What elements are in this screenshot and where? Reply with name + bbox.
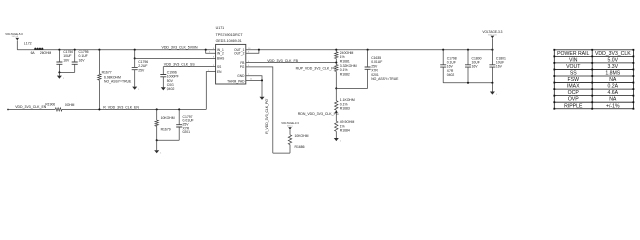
capacitor C1796 2.2UF 25V	[132, 58, 149, 86]
junction: rail / R1681	[335, 49, 337, 51]
svg-text:R1679: R1679	[161, 128, 171, 132]
svg-text:OVP: OVP	[568, 97, 579, 103]
power flag +VOLTAGE-5.0 (input net)	[5, 32, 23, 41]
junction: OUT_1/OUT_2 tie	[258, 49, 260, 51]
wire: node to C1635	[336, 87, 367, 89]
svg-text:SS: SS	[217, 65, 221, 69]
svg-text:RUP_VDD_3V3_CLK_PG: RUP_VDD_3V3_CLK_PG	[296, 66, 337, 70]
svg-text:PG: PG	[240, 65, 245, 69]
junction: EN / R1677 branch	[98, 108, 100, 110]
svg-text:1: 1	[340, 140, 342, 142]
svg-text:16V: 16V	[63, 58, 70, 62]
wire: SS net to U171	[163, 66, 215, 68]
wire: stem to ground	[491, 83, 493, 92]
capacitor C1750 10UF 16V	[56, 50, 73, 73]
svg-text:OCP: OCP	[568, 90, 580, 96]
capacitor C1795 0.1UF 16V	[72, 50, 89, 73]
junction: ground bus	[156, 139, 158, 141]
ground (U171)	[260, 97, 268, 101]
junction: rail / R1677	[98, 49, 100, 51]
capacitor C1801 10UF 16V	[489, 50, 506, 83]
capacitor C1797 0.01UF 25V X7R 0201	[176, 109, 193, 140]
wire: output rail VDD_3V3_CLK	[246, 49, 494, 51]
wire: EN rail up to EN pin	[206, 72, 215, 110]
svg-text:4.6A: 4.6A	[608, 90, 619, 96]
svg-text:R1682: R1682	[340, 72, 350, 76]
junction: GND/THRM_PAD	[261, 79, 263, 81]
svg-text:BIAS: BIAS	[217, 57, 224, 61]
junction: R1682/R1683/C1635 node	[335, 87, 337, 89]
wire: input rail VDD_3V3_CLK_5V0IN	[17, 49, 215, 51]
table row RIPPLE	[564, 103, 620, 109]
ground (C1996)	[161, 87, 169, 91]
wire: FB net	[246, 62, 336, 64]
wire: stem to ground	[156, 140, 158, 150]
junction: EN / R1679	[156, 108, 158, 110]
svg-text:R1906: R1906	[45, 103, 55, 107]
junction: rail / C1801 / output flag	[491, 49, 493, 51]
svg-text:VIN: VIN	[569, 57, 578, 63]
resistor R1906 0OHM	[45, 103, 74, 111]
junction: rail / C1635	[367, 49, 369, 51]
svg-text:1: 1	[496, 94, 498, 96]
resistor R1677 6.98KOHM NO_ASSY=TRUE	[98, 50, 132, 110]
svg-text:POWER RAIL: POWER RAIL	[557, 51, 589, 57]
table row OCP	[568, 90, 619, 96]
ground (input caps)	[57, 76, 65, 80]
wire: output caps ground bus	[443, 82, 492, 84]
wire: EN rail after R1906	[62, 108, 206, 110]
junction: ground bus / C1800	[467, 82, 469, 84]
svg-text:R_VDD_3V3_CLK_EN: R_VDD_3V3_CLK_EN	[103, 105, 139, 109]
svg-text:EN: EN	[217, 70, 222, 74]
wire: stem to ground	[58, 72, 60, 75]
wire: PG bottom jog to R1686	[273, 152, 290, 154]
svg-text:0OHM: 0OHM	[65, 103, 75, 107]
wire: flag to input rail	[16, 40, 18, 49]
svg-text:16V: 16V	[79, 58, 86, 62]
resistor R1679 10KOHM	[155, 109, 175, 140]
power flag +VOLTAGE-3.3 (output net)	[482, 30, 502, 38]
svg-text:1: 1	[160, 153, 162, 155]
svg-text:RDN_VDD_3V3_CLK_PG: RDN_VDD_3V3_CLK_PG	[298, 112, 339, 116]
resistor R1683 1.1KOHM 0.1%	[335, 88, 355, 112]
svg-text:NO_ASSY=TRUE: NO_ASSY=TRUE	[371, 77, 399, 81]
junction: rail / C1798	[442, 49, 444, 51]
wire: R1679/C1797 ground bus	[157, 139, 180, 141]
svg-text:R1681: R1681	[340, 59, 350, 63]
svg-text:L172: L172	[24, 41, 32, 45]
junction: rail / BIAS tap	[134, 49, 136, 51]
resistor R1686 10KOHM pullup	[288, 130, 308, 153]
svg-text:6A: 6A	[31, 51, 36, 55]
svg-text:THRM_PAD: THRM_PAD	[227, 79, 245, 83]
wire: flag to output rail	[491, 38, 493, 49]
table: power rail summary frame	[554, 50, 633, 109]
svg-text:VDD_3V3_CLK_SS: VDD_3V3_CLK_SS	[164, 63, 196, 67]
svg-text:26OHM: 26OHM	[40, 51, 52, 55]
svg-text:NO_ASSY=TRUE: NO_ASSY=TRUE	[104, 80, 132, 84]
svg-text:R1683: R1683	[340, 107, 350, 111]
svg-text:OUT_2: OUT_2	[234, 51, 245, 55]
svg-text:R1686: R1686	[295, 145, 305, 149]
svg-text:10KOHM: 10KOHM	[161, 116, 175, 120]
svg-text:0.2A: 0.2A	[608, 84, 619, 90]
junction: ground bus	[58, 71, 60, 73]
ferrite bead L172	[24, 41, 52, 54]
power flag +VOLTAGE-3.3 (PG pullup)	[281, 121, 299, 130]
svg-text:VDD_3V3_CLK_EN: VDD_3V3_CLK_EN	[15, 105, 47, 109]
table row FSW	[568, 77, 617, 83]
junction: BIAS node	[134, 57, 136, 59]
svg-text:VDD_3V3_CLK_5V0IN: VDD_3V3_CLK_5V0IN	[162, 45, 198, 49]
capacitor C1800 10UF 16V	[465, 50, 482, 83]
resistor R1682 3.32KOHM 0.1%	[335, 63, 357, 89]
svg-text:GND: GND	[237, 74, 245, 78]
table: intersection dots	[553, 49, 634, 110]
wire: GND pin jog	[246, 76, 262, 97]
svg-text:0402: 0402	[167, 87, 175, 91]
svg-text:IMAX: IMAX	[567, 84, 580, 90]
wire: THRM_PAD to GND node	[246, 79, 262, 81]
ground (output caps)	[490, 92, 498, 96]
junction: rail / C1800	[467, 49, 469, 51]
table row OVP	[568, 97, 617, 103]
wire: OUT_2 jog	[246, 50, 259, 54]
svg-text:FSW: FSW	[568, 77, 580, 83]
svg-text:GED3-10469-01: GED3-10469-01	[216, 39, 242, 43]
junction: IN_1/IN_2 tie	[205, 49, 207, 51]
ground (C1796)	[132, 87, 140, 91]
node: EN net left terminal	[7, 109, 8, 110]
capacitor C1798 0.1UF 16V X7R 0402	[440, 50, 457, 83]
wire: PG net	[246, 67, 273, 153]
svg-text:IN_2: IN_2	[217, 51, 224, 55]
resistor R1684 49.9OHM 1%	[335, 112, 355, 138]
table row VOUT	[566, 64, 619, 70]
junction: EN / C1797	[178, 108, 180, 110]
svg-text:VOUT: VOUT	[566, 64, 581, 70]
svg-text:VDD_3V3_CLK: VDD_3V3_CLK	[595, 51, 631, 57]
table row SS	[570, 71, 621, 77]
wire: BIAS drop	[134, 50, 136, 59]
svg-text:TPS74901DRCT: TPS74901DRCT	[216, 33, 244, 37]
svg-text:VOLTAGE-3.3: VOLTAGE-3.3	[281, 121, 299, 125]
wire: IN_2 jog	[206, 50, 216, 54]
svg-text:U171: U171	[216, 26, 225, 30]
svg-text:+/-1%: +/-1%	[606, 103, 620, 109]
svg-text:1: 1	[63, 78, 65, 80]
op-amp U171 TPS74901DRCT regulator body	[216, 26, 246, 84]
junction: ground bus / stem	[491, 82, 493, 84]
junction: RDN_VDD_3V3_CLK_PG node	[335, 111, 337, 113]
svg-text:10KOHM: 10KOHM	[295, 134, 309, 138]
junction: rail / C1795	[74, 49, 76, 51]
svg-text:16V: 16V	[496, 65, 503, 69]
wire: BIAS to U171	[135, 57, 216, 59]
svg-text:0402: 0402	[447, 73, 455, 77]
ground (EN RC)	[154, 150, 162, 154]
svg-text:25V: 25V	[138, 68, 145, 72]
capacitor C1996 1000PF 50V C0G 0402	[160, 67, 178, 92]
svg-text:16V: 16V	[472, 65, 479, 69]
svg-text:0201: 0201	[183, 130, 191, 134]
junction: rail / C1750	[58, 49, 60, 51]
svg-text:5V0_A: 5V0_A	[12, 35, 19, 38]
svg-text:1: 1	[138, 89, 140, 91]
table row IMAX	[567, 84, 619, 90]
table row POWER RAIL	[557, 51, 631, 57]
ground (divider)	[334, 138, 342, 142]
wire: C1750/C1795 ground bus	[59, 71, 74, 73]
svg-text:NA: NA	[609, 77, 617, 83]
resistor R1681 240OHM 1%	[335, 50, 354, 64]
svg-text:3.3V: 3.3V	[608, 64, 619, 70]
capacitor C1635 0.01UF 25V X7R 0201 NO_ASSY=TRUE	[365, 50, 400, 89]
svg-text:R_VDD_3V3_CLK_PG: R_VDD_3V3_CLK_PG	[265, 99, 269, 134]
wire: VDD_3V3_CLK_EN rail	[8, 108, 55, 110]
svg-text:5.0V: 5.0V	[608, 57, 619, 63]
svg-text:VOLTAGE-3.3: VOLTAGE-3.3	[482, 30, 502, 34]
svg-text:VDD_3V3_CLK_FB: VDD_3V3_CLK_FB	[267, 59, 298, 63]
svg-text:SS: SS	[570, 71, 577, 77]
junction: FB node	[335, 62, 337, 64]
svg-text:NA: NA	[609, 97, 617, 103]
svg-text:1.8MS: 1.8MS	[605, 71, 620, 77]
table row VIN	[569, 57, 619, 63]
svg-text:R1684: R1684	[340, 129, 350, 133]
svg-text:RIPPLE: RIPPLE	[564, 103, 583, 109]
svg-text:R1677: R1677	[102, 71, 112, 75]
